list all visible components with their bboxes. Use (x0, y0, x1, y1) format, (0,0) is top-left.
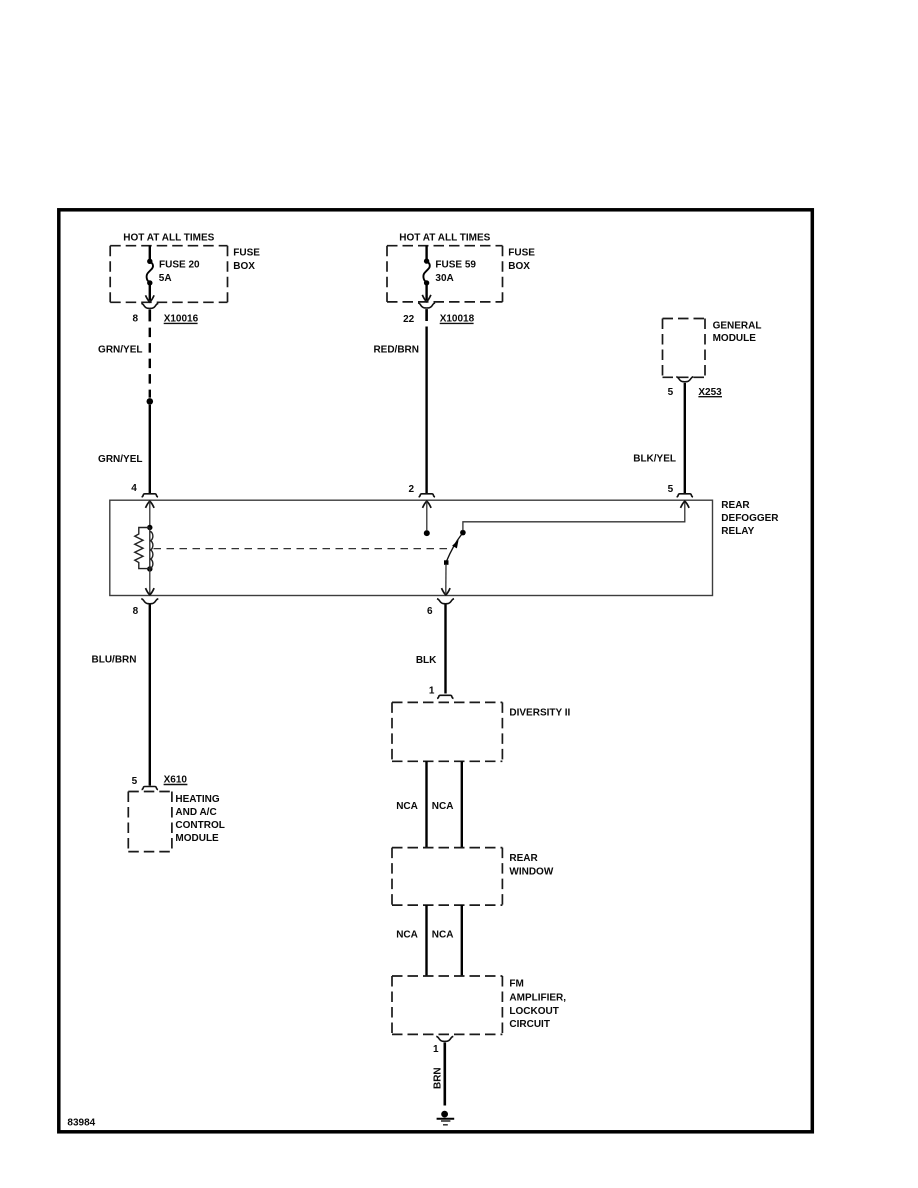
svg-text:LOCKOUT: LOCKOUT (509, 1006, 558, 1017)
svg-text:FUSE: FUSE (508, 248, 535, 259)
svg-text:CIRCUIT: CIRCUIT (509, 1019, 550, 1030)
fuse box 2 (dashed) (387, 246, 503, 302)
pin 5 connector cup (677, 494, 693, 497)
pin 8 arrow (inside relay) (146, 588, 155, 595)
svg-text:GENERAL: GENERAL (713, 320, 762, 331)
svg-text:22: 22 (403, 314, 415, 325)
svg-text:HOT AT ALL TIMES: HOT AT ALL TIMES (399, 233, 490, 244)
svg-text:RELAY: RELAY (721, 526, 754, 537)
wire RED/BRN (425, 327, 427, 494)
FM amplifier lockout circuit box (dashed) (392, 976, 502, 1034)
connector X253 (676, 377, 693, 382)
svg-text:4: 4 (131, 483, 137, 494)
svg-text:GRN/YEL: GRN/YEL (98, 454, 142, 465)
wire fuse20 to box edge, arrow down (149, 284, 151, 301)
svg-text:AND A/C: AND A/C (175, 807, 216, 818)
wire NCA left (diversity to rear window) (425, 761, 427, 847)
wire pivot to pin 6, arrow down (445, 565, 447, 594)
svg-text:5: 5 (668, 387, 674, 398)
svg-text:NCA: NCA (396, 929, 418, 940)
wire into fuse 20 (149, 246, 151, 260)
pin 4 connector cup (142, 494, 158, 497)
svg-text:NCA: NCA (432, 929, 454, 940)
pin 8 connector cup (141, 599, 158, 604)
relay box (110, 500, 713, 595)
wire fuse59 to box edge, arrow down (425, 284, 427, 300)
svg-text:HOT AT ALL TIMES: HOT AT ALL TIMES (123, 233, 214, 244)
svg-text:83984: 83984 (67, 1117, 95, 1128)
switch pivot (444, 560, 449, 565)
svg-text:HEATING: HEATING (175, 794, 219, 805)
wire NCA right (rear window to FM amp) (461, 905, 463, 976)
svg-text:5: 5 (132, 776, 138, 787)
wire into fuse 59 (425, 246, 427, 260)
svg-text:FUSE: FUSE (233, 248, 260, 259)
wire BLK (444, 605, 446, 694)
relay coil K1 (147, 525, 152, 530)
svg-text:BRN: BRN (433, 1067, 444, 1089)
connector X10018 (418, 303, 435, 308)
svg-text:REAR: REAR (721, 500, 750, 511)
svg-text:DEFOGGER: DEFOGGER (721, 513, 779, 524)
svg-text:FUSE 20: FUSE 20 (159, 260, 200, 271)
svg-text:2: 2 (408, 484, 414, 495)
svg-text:GRN/YEL: GRN/YEL (98, 345, 142, 356)
pin 2 connector cup (419, 494, 435, 497)
wire NCA right (diversity to rear window) (461, 761, 463, 847)
wire NCA left (rear window to FM amp) (425, 905, 427, 976)
wire GRN/YEL (dashed) (149, 328, 151, 398)
svg-text:CONTROL: CONTROL (175, 820, 224, 831)
svg-text:1: 1 (433, 1044, 439, 1055)
svg-text:30A: 30A (435, 273, 453, 284)
coil-to-switch dashed link (154, 548, 450, 550)
fuse F20 symbol (147, 259, 152, 264)
pin 4 arrow (inside relay) (146, 501, 155, 508)
heating and a/c control module box (dashed) (128, 792, 172, 852)
rear window box (dashed) (392, 848, 502, 906)
switch arm (446, 535, 461, 562)
fuse F59 symbol (424, 258, 429, 263)
general module box (dashed) (663, 319, 706, 378)
connector X10016 (141, 303, 158, 308)
svg-text:DIVERSITY II: DIVERSITY II (509, 708, 570, 719)
svg-text:BOX: BOX (233, 261, 255, 272)
svg-text:MODULE: MODULE (175, 833, 219, 844)
svg-text:1: 1 (429, 686, 435, 697)
fuse box 1 (dashed) (110, 246, 227, 303)
svg-text:WINDOW: WINDOW (509, 866, 553, 877)
splice node (147, 398, 154, 405)
svg-text:FM: FM (509, 979, 523, 990)
pin 5 arrow (inside relay) (681, 501, 690, 508)
svg-text:8: 8 (132, 314, 138, 325)
svg-text:REAR: REAR (509, 853, 538, 864)
svg-text:FUSE 59: FUSE 59 (435, 260, 476, 271)
page border frame (59, 210, 813, 1132)
ground G1 (441, 1111, 448, 1118)
svg-text:5: 5 (668, 484, 674, 495)
svg-text:BLK/YEL: BLK/YEL (633, 453, 676, 464)
diversity II box (dashed) (392, 702, 502, 761)
svg-text:5A: 5A (159, 273, 172, 284)
wire GRN/YEL (solid) (149, 405, 151, 493)
wire contact up and across to pin 5 (463, 501, 685, 531)
switch contact node (460, 530, 466, 536)
pin 2 arrow and wire to contact ball (423, 501, 432, 508)
pin 1 FM output connector (436, 1036, 453, 1041)
svg-text:AMPLIFIER,: AMPLIFIER, (509, 993, 566, 1004)
svg-text:NCA: NCA (396, 801, 418, 812)
svg-text:BOX: BOX (508, 261, 530, 272)
svg-text:BLU/BRN: BLU/BRN (92, 655, 137, 666)
svg-text:BLK: BLK (416, 655, 437, 666)
pin 6 connector cup (437, 599, 454, 604)
wire BLU/BRN (149, 605, 151, 786)
svg-text:MODULE: MODULE (713, 333, 757, 344)
svg-text:RED/BRN: RED/BRN (373, 345, 419, 356)
svg-text:NCA: NCA (432, 801, 454, 812)
svg-text:6: 6 (427, 606, 433, 617)
svg-text:8: 8 (133, 606, 139, 617)
wire BRN (443, 1043, 446, 1106)
